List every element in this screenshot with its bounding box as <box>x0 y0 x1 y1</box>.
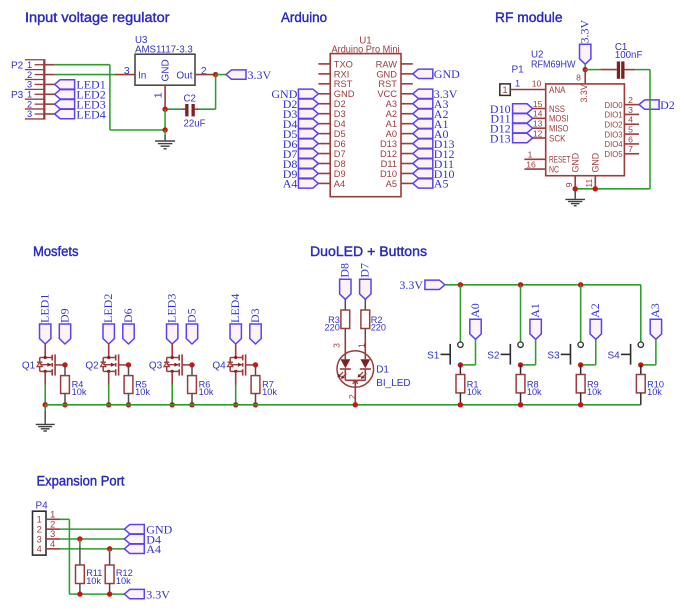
ground symbol (input regulator) <box>155 130 175 149</box>
U2 pin 7 (DIO5) stub <box>624 144 639 154</box>
net flag LED4 <box>55 107 106 121</box>
net flag D6 (mosfet gate) <box>121 308 135 344</box>
wire GND junction down <box>164 109 166 130</box>
svg-text:Arduino Pro Mini: Arduino Pro Mini <box>332 44 400 55</box>
svg-text:D12: D12 <box>380 149 397 159</box>
junction R12 at 3.3V rail <box>107 591 112 596</box>
svg-text:4: 4 <box>37 544 42 554</box>
svg-text:7: 7 <box>628 144 633 154</box>
resistor R6 10k <box>188 365 214 405</box>
wire P4-2 to GND flag <box>60 528 124 530</box>
wire Q4 source to rail <box>235 385 237 405</box>
net flag D11 (U1 right) <box>413 157 454 171</box>
svg-text:LED2: LED2 <box>101 294 115 323</box>
net flag LED3 (mosfet drain) <box>165 294 179 344</box>
svg-text:AMS1117-3.3: AMS1117-3.3 <box>135 44 193 55</box>
net flag D11 <box>490 112 532 126</box>
svg-text:RFM69HW: RFM69HW <box>531 59 576 70</box>
ground rail wire (bottom) <box>45 404 641 406</box>
svg-text:DIO4: DIO4 <box>605 139 623 149</box>
svg-text:3.3V: 3.3V <box>399 278 423 292</box>
net flag D4 (expansion) <box>124 532 161 546</box>
wire Q3 source to rail <box>171 385 173 405</box>
svg-text:D10: D10 <box>380 169 397 179</box>
U3 pin 2 (Out) stub <box>195 65 216 77</box>
wire A1 flag to switch/resistor node <box>521 339 536 365</box>
svg-text:GND: GND <box>591 153 601 173</box>
svg-text:MISO: MISO <box>549 124 569 134</box>
net flag D13 (U1 right) <box>413 137 455 151</box>
resistor R9 10k <box>576 365 602 405</box>
U2 pin 2 (DIO0) stub <box>624 95 639 105</box>
junction Q1 gate / R4 <box>62 362 67 367</box>
svg-text:A5: A5 <box>386 179 397 189</box>
junction C2/U3 GND <box>162 107 167 112</box>
net flag D5 (U1 left) <box>283 127 319 141</box>
wire/pins P1-1 to U2 ANA (pin 10) <box>510 78 545 89</box>
junction R9 at ground rail <box>578 402 583 407</box>
svg-text:A4: A4 <box>283 177 298 191</box>
wire Q1 source to rail <box>44 385 46 405</box>
net flag A2 <box>588 303 602 339</box>
svg-text:220: 220 <box>371 323 386 333</box>
svg-text:D13: D13 <box>380 139 397 149</box>
net flag GND (U1 right) <box>413 67 460 81</box>
svg-text:GND: GND <box>334 89 355 99</box>
wire 3.3V flag to pin 8 node <box>584 64 586 69</box>
svg-text:Input voltage regulator: Input voltage regulator <box>25 10 170 25</box>
section title: DuoLED + Buttons <box>310 244 427 259</box>
svg-text:D3: D3 <box>248 308 262 323</box>
wire Q2 source to rail <box>108 385 110 405</box>
net flag D5 (mosfet gate) <box>184 308 198 344</box>
junction rail / S1 <box>458 282 463 287</box>
svg-text:10k: 10k <box>86 576 101 586</box>
net flag D8 (U1 left) <box>283 157 319 171</box>
svg-text:D2: D2 <box>334 99 346 109</box>
svg-text:RST: RST <box>378 79 397 89</box>
svg-text:1: 1 <box>27 89 32 99</box>
wire rail to S2 contact <box>520 285 522 342</box>
section title: Mosfets <box>33 244 79 259</box>
svg-text:2: 2 <box>27 99 32 109</box>
svg-text:GND: GND <box>571 153 581 173</box>
U3 pin 1 (GND) stub <box>152 85 165 109</box>
svg-text:P1: P1 <box>512 65 525 76</box>
svg-text:3: 3 <box>50 529 55 539</box>
svg-text:DIO2: DIO2 <box>605 119 623 129</box>
svg-text:D13: D13 <box>490 131 511 145</box>
junction pin 9 GND <box>573 186 578 191</box>
wire A3 flag to switch/resistor node <box>641 339 656 365</box>
wire P2-1 to GND node <box>55 65 166 130</box>
svg-text:D11: D11 <box>381 159 397 169</box>
svg-text:GND: GND <box>376 69 397 79</box>
svg-text:2: 2 <box>628 95 633 105</box>
svg-text:P2: P2 <box>11 60 24 71</box>
svg-text:4: 4 <box>50 539 55 549</box>
net flag D7 <box>358 263 372 299</box>
resistor R12 10k <box>105 549 133 594</box>
svg-text:15: 15 <box>533 99 543 109</box>
svg-text:3.3V: 3.3V <box>146 587 170 601</box>
U2 pin 5 (DIO3) stub <box>624 124 639 134</box>
svg-text:BI_LED: BI_LED <box>376 378 410 389</box>
svg-text:DIO5: DIO5 <box>605 149 623 159</box>
svg-text:100nF: 100nF <box>615 50 643 61</box>
svg-text:GND: GND <box>161 59 172 81</box>
U2 pin 6 (DIO4) stub <box>624 134 639 144</box>
svg-text:Out: Out <box>176 70 192 81</box>
capacitor C2 22uF <box>182 94 206 130</box>
net flag D12 (U1 right) <box>413 147 455 161</box>
U3 pin 3 (In) stub <box>115 65 135 77</box>
wire P4-4 to A4 flag <box>60 548 124 550</box>
junction Q4 gate / R7 <box>253 362 258 367</box>
junction Q4 source at rail <box>233 402 238 407</box>
junction Q2 gate / R5 <box>126 362 131 367</box>
svg-text:MOSI: MOSI <box>549 114 569 124</box>
svg-text:6: 6 <box>628 134 633 144</box>
svg-text:3.3V: 3.3V <box>578 20 592 44</box>
wire rail to S1 contact <box>459 285 461 342</box>
net flag A3 (U1 right) <box>413 97 449 111</box>
connector P2 <box>11 60 46 90</box>
U1 right pin names <box>376 59 398 189</box>
svg-text:A3: A3 <box>648 303 662 318</box>
svg-text:ANA: ANA <box>549 85 566 95</box>
junction R6 at rail <box>189 402 194 407</box>
svg-text:A4: A4 <box>146 542 161 556</box>
switch S3 <box>547 342 583 365</box>
junction R7 at rail <box>253 402 258 407</box>
svg-text:Q2: Q2 <box>85 360 99 371</box>
net flag GND (U1 left) <box>271 87 318 101</box>
U2 internal pin names <box>549 84 601 174</box>
connector P1 <box>500 65 524 96</box>
U2 right pin names DIO0-DIO5 <box>605 100 623 159</box>
svg-text:2: 2 <box>347 394 357 399</box>
junction R4 at rail <box>62 402 67 407</box>
svg-text:Expansion Port: Expansion Port <box>37 473 125 488</box>
svg-text:C2: C2 <box>184 94 196 105</box>
svg-text:2: 2 <box>37 524 42 534</box>
svg-text:2: 2 <box>201 65 207 77</box>
wire P4-1 to 3.3V rail <box>60 519 124 594</box>
svg-text:16: 16 <box>526 160 536 170</box>
wire P4-3 to D4 flag <box>60 538 124 540</box>
junction R1 at ground rail <box>458 402 463 407</box>
pin numbers P2 (1,2,3) <box>27 60 32 90</box>
wire C2 left to GND junction <box>165 108 182 110</box>
resistor R4 10k <box>61 365 87 405</box>
net flag LED1 <box>55 78 106 92</box>
net flag D10 (U1 right) <box>413 167 455 181</box>
svg-text:3: 3 <box>331 343 341 348</box>
svg-text:Q3: Q3 <box>149 360 163 371</box>
junction at U3 Out <box>213 72 218 77</box>
U2 pin 14 stub <box>533 109 546 119</box>
ground symbol (mosfet rail) <box>36 405 55 431</box>
svg-text:VCC: VCC <box>377 89 397 99</box>
net flag A2 (U1 right) <box>413 107 449 121</box>
U2 pin 12 stub <box>533 128 546 138</box>
svg-text:D7: D7 <box>334 149 346 159</box>
section title: Expansion Port <box>37 473 125 488</box>
wire C1 to GND rail right side <box>595 70 650 189</box>
svg-text:1: 1 <box>152 92 164 98</box>
P2/P3 pin stubs <box>46 65 55 114</box>
svg-text:S1: S1 <box>427 350 440 361</box>
switch S1 <box>427 342 463 365</box>
svg-text:Q1: Q1 <box>22 360 36 371</box>
switch S2 <box>487 342 523 365</box>
net flag A1 <box>528 303 542 339</box>
LED D1 BI_LED (bi-colour) <box>331 338 410 405</box>
net flag 3.3V (RF, pointing down) <box>578 20 592 65</box>
svg-text:1: 1 <box>50 510 55 520</box>
svg-text:S3: S3 <box>547 350 560 361</box>
svg-text:A0: A0 <box>386 129 397 139</box>
U2 pin 3 (DIO1) stub <box>624 105 639 115</box>
svg-text:10k: 10k <box>527 387 542 397</box>
svg-text:A5: A5 <box>434 177 449 191</box>
svg-text:RAW: RAW <box>376 59 398 69</box>
svg-text:10k: 10k <box>467 387 482 397</box>
svg-text:SCK: SCK <box>549 133 566 143</box>
net flag 3.3V (regulator output) <box>226 68 272 82</box>
svg-text:TXO: TXO <box>334 59 353 69</box>
transistor Q2 N-MOSFET <box>85 344 128 385</box>
svg-text:14: 14 <box>533 109 543 119</box>
net flag A5 (U1 right) <box>413 177 449 191</box>
svg-text:10: 10 <box>532 78 542 88</box>
svg-text:10k: 10k <box>135 387 150 397</box>
wire 3.3V button rail (top) <box>445 285 641 342</box>
section title: RF module <box>495 10 563 25</box>
junction Q2 source at rail <box>106 402 111 407</box>
svg-text:A2: A2 <box>386 109 397 119</box>
net flag A0 (U1 right) <box>413 127 449 141</box>
svg-text:3: 3 <box>27 80 32 90</box>
svg-text:A4: A4 <box>334 179 345 189</box>
resistor R3 220 <box>325 299 350 338</box>
resistor R7 10k <box>251 365 277 405</box>
U1 right pin stubs <box>401 64 413 184</box>
capacitor C1 100nF <box>600 42 642 79</box>
net flag D13 <box>490 131 533 145</box>
junction D1 cathode at rail <box>353 402 358 407</box>
svg-text:S2: S2 <box>487 350 500 361</box>
U2 pin 9 (GND) stub <box>564 176 575 189</box>
svg-text:10k: 10k <box>587 387 602 397</box>
svg-text:1: 1 <box>502 85 507 95</box>
svg-text:D9: D9 <box>57 308 71 323</box>
svg-text:LED4: LED4 <box>228 294 242 323</box>
svg-text:A0: A0 <box>468 303 482 318</box>
junction rail / S3 <box>578 282 583 287</box>
svg-text:9: 9 <box>564 182 574 187</box>
svg-text:Q4: Q4 <box>212 360 226 371</box>
wire rail to S3 contact <box>580 285 582 342</box>
wire A0 flag to switch/resistor node <box>460 339 475 365</box>
IC U2 RFM69HW body <box>531 50 624 176</box>
svg-text:2: 2 <box>50 519 55 529</box>
U2 pin 13 stub <box>533 119 546 129</box>
svg-text:A1: A1 <box>528 303 542 318</box>
junction D4 / R11 <box>77 536 82 541</box>
svg-text:1: 1 <box>528 150 533 160</box>
U2 pin 4 (DIO2) stub <box>624 115 639 125</box>
svg-text:D5: D5 <box>334 129 346 139</box>
resistor R11 10k <box>76 539 103 594</box>
U1 left pin names <box>334 59 355 189</box>
svg-text:13: 13 <box>533 119 543 129</box>
svg-text:Mosfets: Mosfets <box>33 244 79 259</box>
svg-text:5: 5 <box>628 124 633 134</box>
switch S4 <box>607 342 643 365</box>
svg-text:3: 3 <box>124 65 130 77</box>
svg-text:D6: D6 <box>334 139 346 149</box>
svg-text:NC: NC <box>549 165 559 175</box>
net flag D9 (U1 left) <box>283 167 319 181</box>
net flag D12 <box>490 121 533 135</box>
wire 3.3V node down to C2 right <box>199 75 216 110</box>
svg-text:A3: A3 <box>386 99 397 109</box>
U2 pin 8 (3.3V) stub <box>576 70 585 84</box>
net flag A4 (expansion) <box>124 542 161 556</box>
net flag LED2 (mosfet drain) <box>101 294 115 344</box>
net flag GND (expansion) <box>124 522 172 536</box>
svg-text:RST: RST <box>334 79 353 89</box>
svg-text:3: 3 <box>37 534 42 544</box>
svg-text:3.3V: 3.3V <box>579 84 589 102</box>
svg-text:2: 2 <box>27 70 32 80</box>
svg-text:GND: GND <box>434 67 460 81</box>
svg-text:S4: S4 <box>607 350 620 361</box>
transistor Q3 N-MOSFET <box>149 344 192 385</box>
pin numbers P3 (1,2,3) <box>27 89 32 119</box>
junction Q3 source at rail <box>170 402 175 407</box>
svg-text:In: In <box>138 70 146 81</box>
resistor R2 220 <box>361 299 386 338</box>
svg-text:A2: A2 <box>588 303 602 318</box>
resistor R5 10k <box>124 365 150 405</box>
connector P3 <box>11 89 46 119</box>
resistor R10 10k <box>636 365 664 405</box>
transistor Q1 N-MOSFET <box>22 344 65 385</box>
svg-text:10k: 10k <box>116 576 131 586</box>
svg-text:DIO0: DIO0 <box>605 100 623 110</box>
svg-text:D4: D4 <box>334 119 346 129</box>
net flag A4 (U1 left) <box>283 177 319 191</box>
voltage regulator U3 AMS1117-3.3 <box>135 35 195 85</box>
svg-text:1: 1 <box>27 60 32 70</box>
U1 left pin stubs <box>318 64 330 184</box>
U2 pin 11 (GND) stub <box>584 176 595 189</box>
junction ground node <box>162 127 167 132</box>
svg-text:DIO1: DIO1 <box>605 110 623 120</box>
svg-text:NSS: NSS <box>549 104 565 114</box>
junction pin 11 GND <box>593 186 598 191</box>
U2 pin 15 stub <box>533 99 546 109</box>
svg-text:4: 4 <box>628 115 633 125</box>
svg-text:3: 3 <box>628 105 633 115</box>
net flag D10 <box>490 102 533 116</box>
wire pin8 to C1 <box>585 69 600 71</box>
svg-text:D6: D6 <box>121 308 135 323</box>
net flag A0 <box>468 303 482 339</box>
junction S3 lower contact <box>578 362 583 367</box>
svg-text:3.3V: 3.3V <box>248 68 272 82</box>
svg-text:D8: D8 <box>334 159 346 169</box>
net flag D7 (U1 left) <box>283 147 319 161</box>
junction A4 / R12 <box>107 546 112 551</box>
svg-text:10k: 10k <box>262 387 277 397</box>
net flag D9 (mosfet gate) <box>57 308 71 344</box>
U2 pin 16 (NC) stub <box>524 160 545 170</box>
wire P2-2 to U3 In <box>55 74 115 76</box>
svg-text:DuoLED + Buttons: DuoLED + Buttons <box>310 244 427 259</box>
net flag LED1 (mosfet drain) <box>38 294 52 344</box>
svg-text:10k: 10k <box>199 387 214 397</box>
svg-text:RESET: RESET <box>549 155 571 165</box>
net flag D3 (mosfet gate) <box>248 308 262 344</box>
IC U1 Arduino Pro Mini body <box>330 35 401 196</box>
wire A2 flag to switch/resistor node <box>581 339 596 365</box>
section title: Input voltage regulator <box>25 10 170 25</box>
svg-text:D7: D7 <box>358 263 372 278</box>
svg-text:P3: P3 <box>11 90 24 101</box>
svg-text:D5: D5 <box>184 308 198 323</box>
svg-text:RXI: RXI <box>334 69 350 79</box>
svg-text:22uF: 22uF <box>184 118 206 129</box>
net flag LED2 <box>55 88 106 102</box>
svg-text:D3: D3 <box>334 109 346 119</box>
net flag D8 <box>338 263 352 299</box>
svg-text:220: 220 <box>325 323 340 333</box>
junction S2 lower contact <box>518 362 523 367</box>
net flag A3 <box>648 303 662 339</box>
net flag 3.3V (expansion) <box>124 587 170 601</box>
svg-text:11: 11 <box>584 178 594 187</box>
junction R8 at ground rail <box>518 402 523 407</box>
wire between GND pins <box>575 188 595 190</box>
svg-text:1: 1 <box>37 515 42 525</box>
wire Out to 3.3V flag <box>216 74 226 76</box>
svg-text:1: 1 <box>515 78 520 88</box>
net flag D2 (DIO0) <box>639 98 675 112</box>
resistor R8 10k <box>516 365 542 405</box>
resistor R1 10k <box>456 365 482 405</box>
svg-text:Arduino: Arduino <box>281 10 327 25</box>
svg-text:3: 3 <box>27 109 32 119</box>
junction S1 lower contact <box>458 362 463 367</box>
junction R11 at 3.3V rail <box>77 591 82 596</box>
net flag 3.3V (button rail) <box>399 278 445 292</box>
svg-text:DIO3: DIO3 <box>605 129 623 139</box>
junction R5 at rail <box>126 402 131 407</box>
junction S4 lower contact <box>638 362 643 367</box>
svg-text:RF module: RF module <box>495 10 563 25</box>
svg-text:10k: 10k <box>647 387 662 397</box>
net flag D6 (U1 left) <box>283 137 319 151</box>
net flag LED4 (mosfet drain) <box>228 294 242 344</box>
svg-text:LED3: LED3 <box>165 294 179 323</box>
svg-text:12: 12 <box>533 128 543 138</box>
connector P4 <box>33 500 49 555</box>
svg-text:1: 1 <box>356 343 366 348</box>
